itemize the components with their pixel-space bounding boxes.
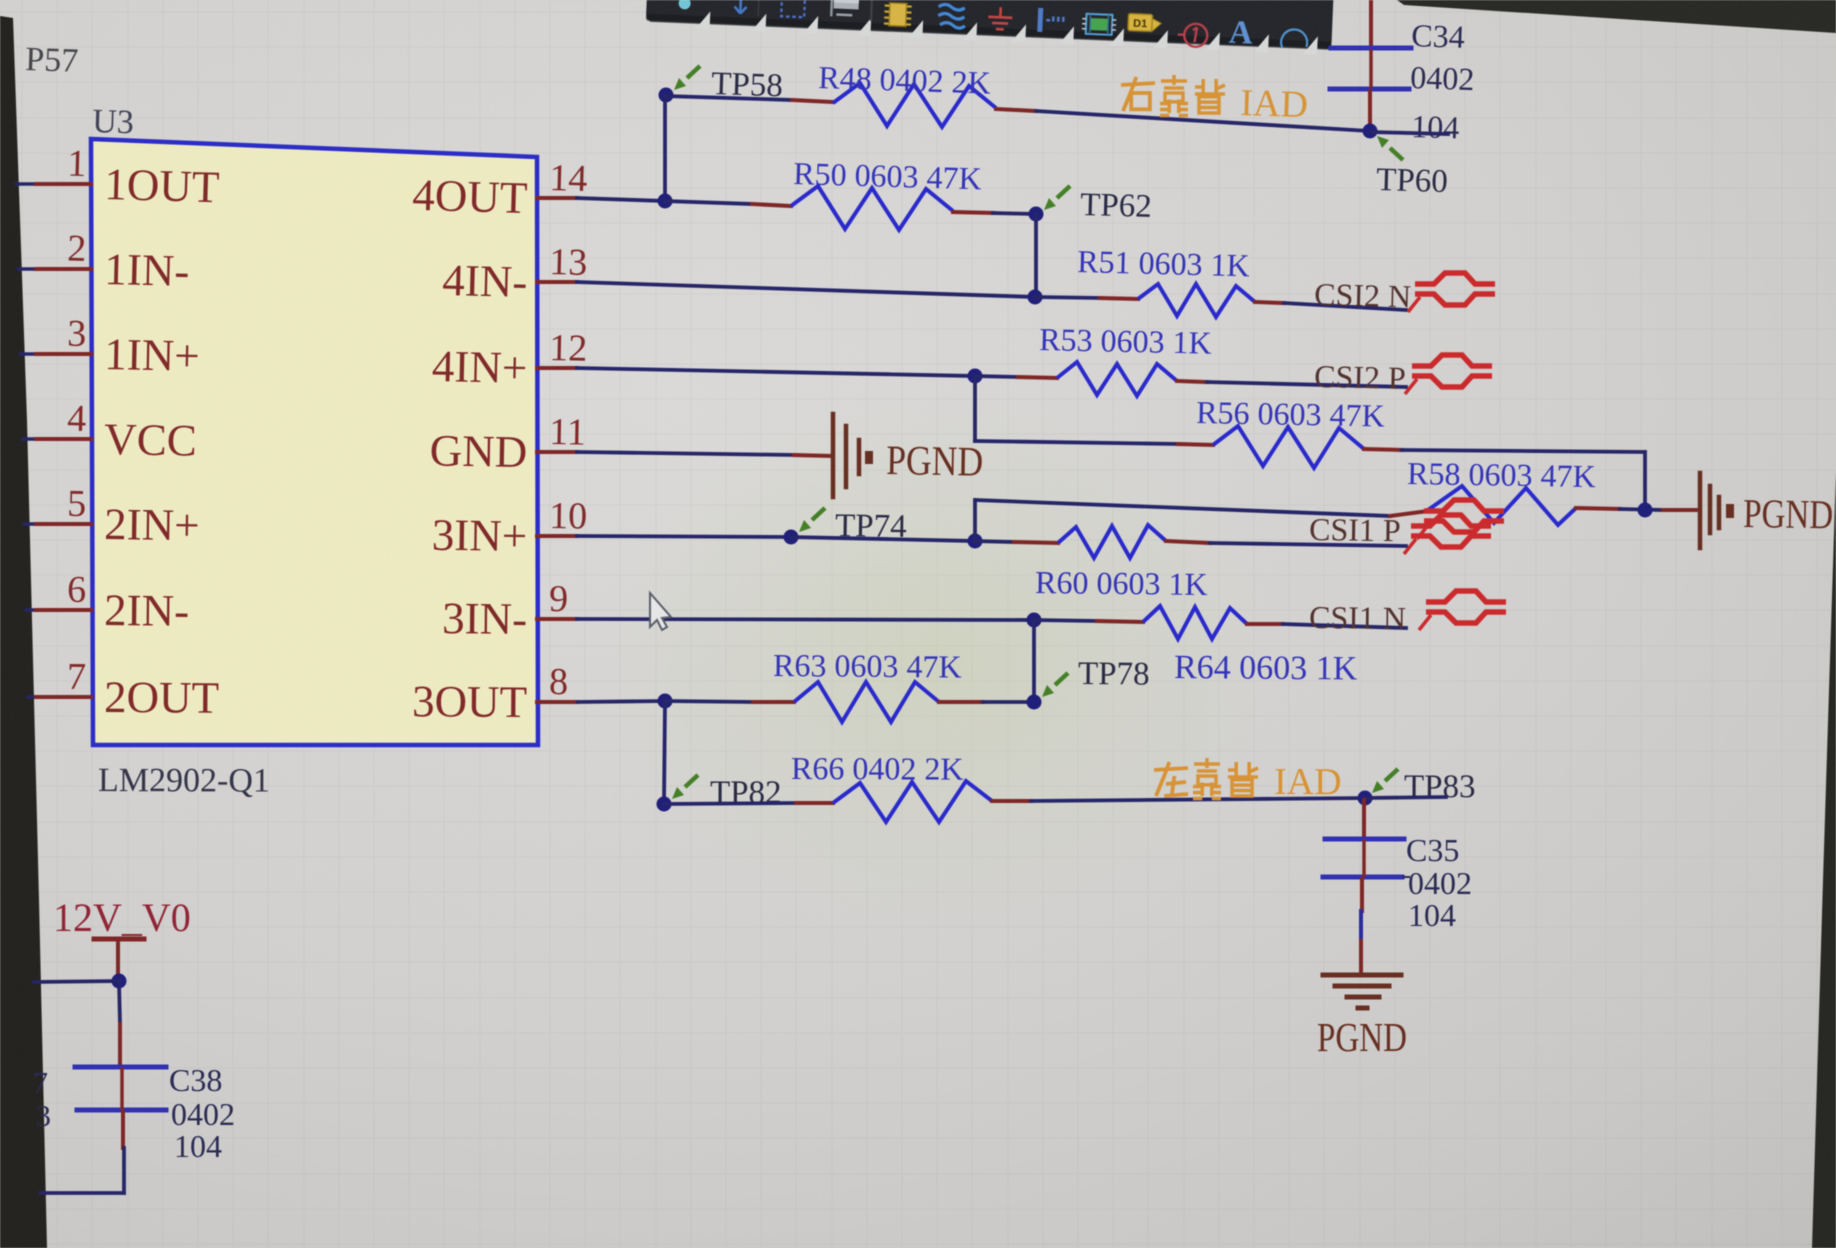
wire CSI1_P upper run <box>976 500 1390 516</box>
resistor R64 right pin <box>1247 622 1283 626</box>
monitor bezel bottom-right edge <box>1812 470 1836 1248</box>
wire 4IN- to junction <box>577 282 1035 297</box>
resistor R66 <box>833 781 992 822</box>
wire TP82 to R66 <box>664 803 796 804</box>
differential pair directive CSI1_N <box>1419 591 1506 630</box>
wire stub right of TP60 <box>1370 132 1448 134</box>
resistor R51 <box>1138 284 1255 317</box>
value LM2902-Q1 <box>98 762 270 800</box>
label R56 0603 47K <box>1196 394 1385 434</box>
monitor bezel top-right edge <box>1397 0 1836 33</box>
wire R56 to PGND corner <box>1402 450 1645 509</box>
test point TP62 <box>1044 186 1152 225</box>
junction 3IN- node <box>1027 613 1042 628</box>
pin 14 (4OUT) <box>412 157 588 223</box>
differential pair directive CSI1_P (doubled) <box>1404 500 1504 554</box>
resistor R64 <box>1143 606 1247 639</box>
wire TP58 to R48 <box>666 96 792 100</box>
wire junction to R64 <box>1034 620 1097 621</box>
designator U3 <box>92 103 135 141</box>
wire vertical 4IN+ node down to R56 <box>973 376 977 441</box>
wire vertical 3IN- node to TP78 <box>1032 620 1036 702</box>
capacitor C38 bottom lead <box>121 1112 125 1148</box>
label C34 104 <box>1411 108 1460 145</box>
resistor R51 left pin <box>1100 298 1138 299</box>
wire 3IN+ to TP74 <box>577 536 791 537</box>
junction TP78 node <box>1027 695 1042 710</box>
resistor R64 left pin <box>1097 621 1143 622</box>
wire R50 to TP62 <box>993 213 1036 214</box>
wire 3IN- to junction <box>577 619 1034 620</box>
resistor R66 left pin <box>796 801 833 805</box>
capacitor C34 <box>1330 48 1411 89</box>
junction TP58 node <box>659 88 674 103</box>
label R53 0603 1K <box>1039 321 1212 361</box>
resistor R50 left pin <box>752 204 791 206</box>
resistor R66 right pin <box>992 799 1031 803</box>
wire junction to R51 <box>1035 297 1100 298</box>
junction CSI1_P node <box>968 534 983 549</box>
pin 3 (1IN+) <box>21 313 201 381</box>
test point TP74 <box>799 508 907 545</box>
junction 12V node <box>112 974 127 989</box>
junction R56/R58 ground node <box>1638 503 1653 518</box>
pin 8 (3OUT) <box>412 661 577 727</box>
label R63 0603 47K <box>773 647 962 685</box>
capacitor C34 bottom lead <box>1368 91 1372 131</box>
label C38 <box>169 1062 222 1098</box>
resistor R53 right pin <box>1177 381 1207 382</box>
wire R63 to TP78 <box>983 700 1034 704</box>
label C35 104 <box>1408 897 1456 933</box>
label R58 0603 47K <box>1407 455 1596 494</box>
junction TP62 node <box>1029 207 1044 222</box>
test point TP82 <box>672 775 782 811</box>
resistor R53 <box>1057 362 1177 396</box>
label C38 0402 <box>171 1096 235 1132</box>
wire to R56 <box>975 441 1178 444</box>
wire stub right of TP83 <box>1365 797 1446 798</box>
differential pair directive CSI2_P <box>1405 355 1492 394</box>
label C34 <box>1411 17 1466 55</box>
capacitor C38 <box>75 1067 166 1110</box>
ground pin lead <box>794 455 831 456</box>
resistor R58 <box>1428 486 1576 525</box>
resistor R53 left pin <box>1018 377 1057 378</box>
wire R51 to CSI2_N <box>1284 303 1406 310</box>
wire R60 to CSI1_P label <box>1210 543 1406 546</box>
capacitor C35 top lead <box>1362 800 1366 837</box>
junction 4IN- node <box>1028 290 1043 305</box>
capacitor C34 top lead <box>1369 0 1373 46</box>
net label CSI1_P <box>1309 511 1401 548</box>
pin 2 (1IN-) <box>19 228 190 297</box>
power port 12V_V0 <box>53 895 191 981</box>
label PGND (bottom) <box>1317 1014 1407 1060</box>
capacitor C38 top lead <box>118 1024 122 1066</box>
junction 3OUT node <box>658 694 673 709</box>
wire vertical TP58 to 4OUT net <box>663 95 667 201</box>
label C38 104 <box>174 1128 222 1164</box>
wire vertical 3OUT node to TP82 <box>664 701 665 804</box>
resistor R60 <box>1058 525 1166 558</box>
pin 12 (4IN+) <box>431 327 587 393</box>
test point TP83 <box>1372 769 1476 805</box>
net label 左靠背 IAD <box>1154 758 1342 803</box>
op-amp U3 LM2902-Q1 body <box>91 139 538 745</box>
resistor R48 right pin <box>996 109 1036 111</box>
wire 3OUT to junction <box>578 701 665 702</box>
net label CSI1_N <box>1309 599 1406 636</box>
wire junction to R63 <box>665 701 753 702</box>
wire R64 to CSI1_N <box>1283 624 1406 628</box>
capacitor C35 bottom lead <box>1361 879 1362 973</box>
cut-off text 7 <box>33 1065 49 1100</box>
pin 11 (GND) <box>429 411 586 477</box>
pin 9 (3IN-) <box>442 578 577 644</box>
wire R66 to TP83 (net 左靠背 IAD) <box>1031 798 1365 801</box>
EDA toolbar <box>646 0 1334 55</box>
label C34 0402 <box>1410 59 1475 97</box>
wire 4OUT to junction <box>577 198 665 201</box>
photo grain overlay <box>0 0 1 1</box>
resistor R48 left pin <box>792 100 833 102</box>
resistor R60 right pin <box>1166 541 1210 543</box>
pin 13 (4IN-) <box>442 241 588 307</box>
power ground PGND (right) <box>1700 473 1834 548</box>
pin 1 (1OUT) <box>17 142 220 212</box>
test point TP78 <box>1042 656 1150 697</box>
wire R58 to PGND junction <box>1620 509 1663 510</box>
label C35 0402 <box>1408 865 1472 901</box>
label C35 <box>1406 832 1459 868</box>
resistor R63 right pin <box>939 700 983 704</box>
pin 4 (VCC) <box>22 398 197 466</box>
pin 6 (2IN-) <box>26 569 189 636</box>
pin 5 (2IN+) <box>24 483 200 551</box>
differential pair directive CSI2_N <box>1408 273 1495 312</box>
resistor R50 <box>791 186 953 230</box>
resistor R58 right pin <box>1576 508 1620 509</box>
wire 4IN+ to junction <box>577 368 975 376</box>
junction TP74 node <box>784 530 799 545</box>
label R60 0603 1K <box>1035 564 1208 602</box>
resistor R58 left pin <box>1390 511 1428 516</box>
label R50 0603 47K <box>793 155 982 196</box>
label R64 0603 1K <box>1174 649 1358 688</box>
resistor R63 left pin <box>753 700 794 704</box>
resistor R63 <box>794 682 939 722</box>
test point TP58 <box>674 66 783 104</box>
junction TP60 node <box>1363 124 1378 139</box>
resistor R56 left pin <box>1178 444 1213 445</box>
pin 7 (2OUT) <box>28 656 219 723</box>
wire TP74 to CSI1_P node <box>791 537 975 541</box>
resistor R60 left pin <box>1014 542 1058 543</box>
wire junction to R53 <box>975 376 1018 377</box>
junction TP82 node <box>657 797 672 812</box>
ground pin lead right <box>1663 508 1697 512</box>
wire vertical CSI1_P node up <box>973 500 977 541</box>
net label CSI2_P <box>1314 358 1406 396</box>
wire 12V node down to C38 <box>119 981 120 1024</box>
wire vertical TP62 to 4IN- net <box>1034 214 1038 297</box>
power ground PGND (pin 11) <box>833 414 984 497</box>
resistor R51 right pin <box>1255 302 1284 303</box>
mouse cursor <box>650 593 671 630</box>
label R48 0402 2K <box>818 59 992 101</box>
net label CSI2_N <box>1314 276 1412 314</box>
net label 右靠背 IAD <box>1121 75 1309 126</box>
wire R48 to TP60 (net 右靠背 IAD) <box>1036 111 1370 131</box>
wire junction to R50 <box>665 201 752 204</box>
resistor R56 <box>1213 426 1364 468</box>
cut-off text 3 <box>36 1098 52 1133</box>
resistor R56 right pin <box>1364 449 1402 450</box>
label R66 0402 2K <box>791 750 964 787</box>
test point TP60 <box>1376 136 1449 200</box>
pin 10 (3IN+) <box>431 495 587 561</box>
wire C38 to left edge <box>41 1148 124 1193</box>
wire R53 to CSI2_P <box>1207 382 1406 387</box>
resistor R50 right pin <box>953 212 993 213</box>
monitor bezel left edge <box>0 16 47 1248</box>
cut-off label P57 <box>25 41 79 80</box>
resistor R48 <box>833 83 996 127</box>
junction 4IN+ node <box>968 369 983 384</box>
wire GND pin to ground <box>577 452 794 455</box>
label R51 0603 1K <box>1077 243 1250 283</box>
wire junction to R60 <box>975 541 1014 542</box>
junction 4OUT node <box>658 194 673 209</box>
capacitor C35 <box>1323 839 1410 877</box>
earth ground PGND (bottom) <box>1323 975 1401 1008</box>
wire 12V to left edge <box>34 981 119 982</box>
junction TP83 node <box>1358 791 1373 806</box>
